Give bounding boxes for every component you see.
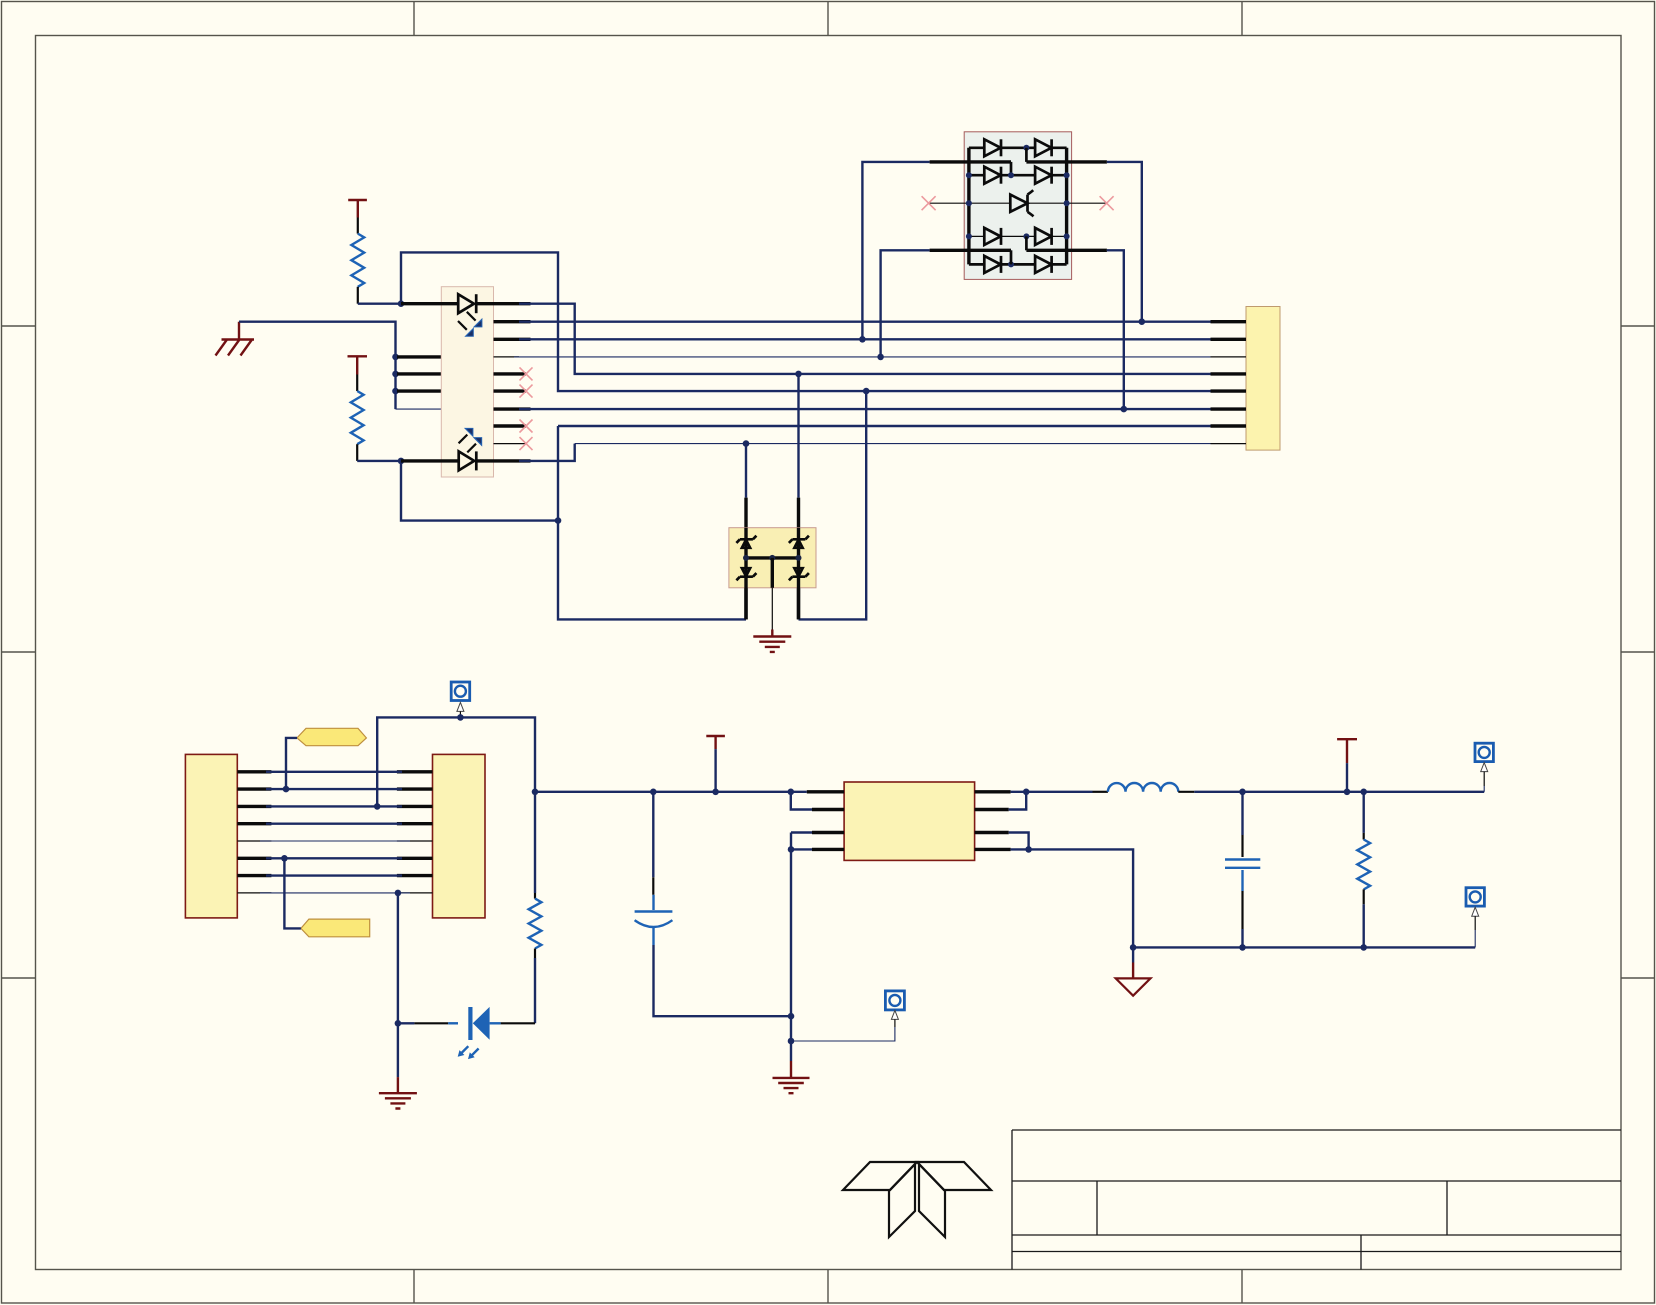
wire flag A to row2 — [286, 738, 297, 789]
pin J2.5 thin — [397, 840, 433, 842]
no-connect X c8 — [520, 437, 533, 450]
junction row8 TVS — [743, 440, 750, 447]
pin P1.4 — [1211, 372, 1247, 375]
resistor R1 — [351, 234, 364, 287]
junctions D1 row4 — [966, 233, 1070, 239]
junction row8 led — [395, 890, 402, 897]
wire bottom row4 — [266, 823, 402, 825]
junction cap C2 top — [1239, 789, 1246, 796]
wire net row8 thin — [575, 443, 1211, 445]
pin J2.2 — [397, 787, 433, 790]
wire rail to R2 — [534, 792, 536, 893]
D1 right pin2 — [1026, 249, 1107, 252]
pin J1.3 — [237, 805, 271, 808]
wire D1 left2 to row3 — [881, 250, 930, 357]
zener D2d — [789, 568, 809, 580]
pin U2.7 right — [975, 833, 1029, 850]
D1 left pin2 jog — [1010, 250, 1013, 264]
wire R1 to U1 pin1 — [358, 303, 401, 305]
diode U1 LED bottom — [459, 451, 477, 470]
diode D1g — [984, 256, 1001, 273]
wire row3 to TP1 rail — [377, 717, 535, 806]
ground triangle — [1116, 947, 1151, 995]
wire flag B to row6 — [284, 858, 301, 928]
wire bottom row7 — [266, 874, 402, 876]
wire TVS left top — [745, 444, 747, 498]
junction TP3 net — [788, 1038, 795, 1045]
no-connect X zener right — [1100, 196, 1114, 210]
chassis ground — [216, 322, 255, 356]
junction gnd pin stubs — [392, 354, 399, 395]
D1 row5 wire — [969, 263, 1067, 266]
pin U1 top right — [476, 302, 530, 305]
junction row2 — [859, 336, 866, 343]
wire bottom row6 — [266, 857, 402, 859]
pin U1 bottom right — [476, 459, 530, 462]
pin J2.4 — [397, 822, 433, 825]
D1 right pin1 jog — [1025, 148, 1028, 162]
power port VCC4 — [1337, 739, 1357, 792]
pin U2.5 right — [975, 790, 1011, 793]
junction power T3 — [712, 789, 719, 796]
pin U1 row c3 thin — [494, 356, 520, 358]
wire R2 to U1 pin6 — [357, 460, 401, 462]
pin J1.8 thin — [237, 892, 271, 894]
ground earth LED — [379, 1077, 417, 1108]
D1 left pin1 jog — [1010, 162, 1013, 175]
wire D1 right2 to row6 — [1107, 250, 1124, 409]
test point TP1 — [451, 682, 470, 717]
TVS verticals inside — [746, 528, 799, 620]
wire net row1 — [519, 321, 1211, 323]
junction rail left — [532, 789, 539, 796]
junction row3 — [374, 803, 381, 810]
LED D3 — [448, 1007, 500, 1040]
wire TVS left vertical — [744, 498, 747, 620]
TVS D2 box — [729, 528, 816, 588]
pin J1.2 — [237, 787, 271, 790]
LED arrows down-right — [458, 312, 482, 337]
D1 row1 wire — [969, 146, 1067, 149]
ground earth TVS — [753, 637, 791, 652]
diode D1h — [1035, 256, 1052, 273]
ground earth U2 — [773, 1061, 810, 1093]
junction R3 top — [1360, 789, 1367, 796]
D1 left pin2 — [930, 249, 1011, 252]
pin U1 nc row c5 — [494, 389, 527, 392]
diode D1d — [1035, 167, 1052, 184]
zener D2b — [736, 568, 756, 580]
wire TVS right top — [797, 374, 799, 498]
D1 right bus — [1065, 148, 1068, 265]
junction cap C1 top — [650, 789, 657, 796]
pin P1.7 — [1211, 424, 1247, 427]
junction row3 — [877, 354, 884, 361]
wire U2 gnd vertical — [790, 833, 792, 1062]
pin U1 left gnd stubs — [397, 357, 441, 391]
pin U1 row c1 — [494, 320, 531, 323]
zener row wire thin — [929, 202, 1107, 204]
resistor R4 led series — [529, 893, 542, 1023]
wire bottom row5 thin — [260, 840, 410, 842]
power port VCC2 — [348, 356, 368, 374]
pin U2.2 — [791, 792, 844, 810]
wire TVS right vertical — [797, 498, 800, 620]
diode D1c — [984, 167, 1001, 184]
wire U2 out rail — [1011, 791, 1093, 793]
pin J1.1 — [237, 770, 271, 773]
junction flag A — [283, 786, 290, 793]
wire bottom row1 — [266, 771, 402, 773]
wire output rail — [1194, 791, 1484, 793]
logo — [843, 1162, 991, 1237]
junction R1 node — [398, 300, 405, 307]
wire net row2 — [519, 338, 1211, 340]
wire bottom row2 — [266, 788, 402, 790]
wire R2 top lead — [356, 375, 358, 392]
zener D1z — [1010, 190, 1033, 216]
wire net row8 from U1 bottom — [519, 444, 575, 461]
junction row5 TVS — [863, 388, 870, 395]
wire bottom row8 thin — [260, 892, 410, 894]
resistor R2 — [351, 391, 364, 444]
diode D1f — [1035, 228, 1052, 245]
pin J2.1 — [397, 770, 433, 773]
pin U2.4 — [791, 848, 844, 851]
pin J2.8 thin — [397, 892, 433, 894]
pin U1.1 left — [401, 302, 458, 305]
D1 row2 wire — [969, 174, 1067, 177]
pin P1.1 — [1211, 320, 1247, 323]
wire row7 to TVS left — [558, 426, 746, 619]
pin U1.6 left — [401, 459, 459, 462]
connector J1 left — [185, 754, 237, 918]
junction U2 pin2 jog — [788, 789, 795, 796]
power port VCC3 — [706, 736, 725, 792]
wire bottom gnd rail — [1133, 946, 1475, 948]
zener D2a — [736, 536, 756, 548]
wire bottom row3 — [266, 805, 402, 807]
junction D1 row5 — [1008, 261, 1014, 267]
wire D1 right1 to row1 — [1107, 162, 1142, 322]
wire net loop to row5 — [401, 252, 1211, 391]
D1 left pin1 — [930, 160, 1011, 163]
title block — [1012, 1130, 1621, 1270]
junction LED anode — [395, 1020, 402, 1027]
pin J1.5 thin — [237, 840, 271, 842]
test point TP5 — [1466, 888, 1484, 948]
pin J1.7 — [237, 874, 271, 877]
inductor L1 — [1093, 783, 1195, 792]
wire U1 pin5 thin — [396, 408, 442, 410]
pin U2.8 right — [975, 849, 1134, 947]
capacitor C2 — [1225, 792, 1260, 948]
pin U1 row c2 — [494, 338, 531, 341]
pin J2.7 — [397, 874, 433, 877]
pin P1.2 — [1211, 338, 1247, 341]
junction power T4 — [1344, 789, 1351, 796]
wire TVS right bottom to row5 — [799, 391, 867, 619]
junction TP1 — [457, 714, 464, 721]
junction R2 node — [398, 458, 405, 465]
pin P1.3 thin — [1211, 356, 1247, 358]
wire net row7 — [558, 425, 1211, 427]
D1 right pin1 — [1026, 160, 1107, 163]
pin J1.6 — [237, 857, 271, 860]
pin P1.8 thin — [1211, 443, 1247, 445]
junction D1 row1 — [1023, 145, 1029, 151]
no-connect X c5 — [520, 385, 533, 398]
wire row8 to LED — [397, 893, 399, 1077]
net flag B — [301, 919, 370, 937]
wire LED row — [398, 1022, 535, 1024]
junction row1 — [1139, 318, 1146, 325]
diode D1a — [984, 139, 1001, 156]
wire D1 left1 to row2 — [862, 162, 929, 339]
junction row4 TVS — [795, 371, 802, 378]
LED arrows up-right — [459, 428, 483, 453]
pin P1.6 — [1211, 407, 1247, 410]
junctions zener row — [966, 200, 1070, 206]
wire R1 bottom lead — [357, 287, 359, 304]
D1 right pin2 jog — [1025, 236, 1028, 250]
pin U1 nc row c8 thin — [494, 443, 527, 445]
TVS middle bar — [746, 556, 799, 559]
net flag A — [297, 728, 366, 745]
junctions D1 row2 — [966, 172, 1070, 178]
TVS center tap — [771, 558, 774, 637]
junction U2 pin4 — [788, 846, 795, 853]
wire TP3 to gnd net — [791, 1019, 895, 1041]
junction cap C2 bottom — [1239, 944, 1246, 951]
junctions TVS bar — [743, 555, 802, 561]
no-connect X c7 — [520, 420, 533, 433]
pin U2.3 — [791, 831, 844, 834]
wire net row4 from U1 pin1 — [519, 304, 1211, 374]
capacitor C1 — [635, 792, 791, 1016]
pin U2.6 right — [975, 792, 1027, 810]
pin J1.4 — [237, 822, 271, 825]
wire R2 bottom lead — [356, 444, 358, 461]
resistor R3 — [1357, 792, 1370, 948]
pin U2.1 — [807, 790, 844, 793]
opto U1 box — [441, 287, 493, 477]
pin U1 row c6 — [494, 407, 531, 410]
zener D2c — [789, 536, 809, 548]
wire net row6 — [519, 408, 1211, 410]
test point TP3 — [885, 991, 904, 1020]
wire net row3 thin — [514, 356, 1211, 358]
diode array D1 box — [964, 132, 1071, 280]
wire main rail — [535, 791, 807, 793]
wire R1 top lead — [357, 218, 359, 234]
junction cap C1 bottom — [788, 1013, 795, 1020]
wire ground bus to U1 — [239, 322, 396, 409]
power port VCC1 — [348, 200, 367, 218]
pin U1 nc row c7 — [494, 424, 527, 427]
diode U1 LED top — [458, 294, 476, 313]
D1 left bus — [967, 148, 970, 265]
regulator U2 — [844, 782, 975, 860]
pin U1 nc row c4 — [494, 372, 527, 375]
junction R3 bottom — [1360, 944, 1367, 951]
junction gnd rail left — [1130, 944, 1137, 951]
no-connect X c4 — [520, 367, 533, 380]
junction flag B — [281, 855, 288, 862]
pin J2.6 — [397, 857, 433, 860]
junction U2 out — [1023, 789, 1030, 796]
junction U2 pin7-8 — [1025, 846, 1032, 853]
pin P1.5 — [1211, 389, 1247, 392]
pin J2.3 — [397, 805, 433, 808]
test point TP4 — [1475, 743, 1493, 792]
diode D1b — [1035, 139, 1052, 156]
D1 row4 wire thin — [969, 235, 1067, 237]
wire R2 net to TVS — [401, 461, 558, 521]
diode D1e — [984, 228, 1001, 245]
LED arrows — [458, 1046, 479, 1059]
junction row6 — [1121, 406, 1128, 413]
no-connect X zener left — [922, 196, 936, 210]
junction TVS-left net — [555, 517, 562, 524]
connector P1 — [1246, 307, 1280, 451]
connector J2 right — [433, 754, 486, 918]
